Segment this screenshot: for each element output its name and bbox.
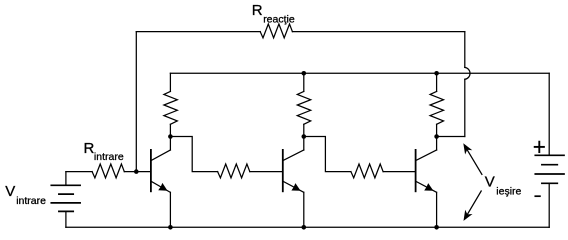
wire: coupling resistor to Q2 base xyxy=(250,171,283,173)
resistor R_intrare xyxy=(92,164,124,178)
wire: top feedback line (right segment) xyxy=(292,31,464,33)
collector resistor of Q1 xyxy=(164,73,177,150)
wire: positive supply rail xyxy=(170,72,549,74)
arrow: V_iesire to bottom rail xyxy=(464,191,482,221)
battery: supply (right) xyxy=(535,155,564,183)
junction dot: input node (Q1 base) xyxy=(134,169,139,174)
wire: battery top to R_intrare xyxy=(66,171,92,173)
svg-text:V: V xyxy=(5,183,15,200)
wire: Q1 collector node L to first coupling resistor xyxy=(170,137,217,172)
resistor: coupling stage2-stage3 xyxy=(351,164,383,178)
wire: feedback vertical below hop, down to output node xyxy=(464,79,466,136)
junction dot: rail node above Q3 xyxy=(434,71,439,76)
junction dot: Q1 emitter ground node xyxy=(168,225,173,230)
wire: output node to feedback corner xyxy=(437,136,465,138)
wire: R_intrare to input node xyxy=(124,171,151,173)
wire: coupling resistor to Q3 base xyxy=(383,171,416,173)
resistor R_reactie xyxy=(260,24,292,38)
svg-text:reacţie: reacţie xyxy=(263,13,295,25)
wire hop: feedback crosses supply rail xyxy=(465,67,470,79)
junction dot: rail node above Q2 xyxy=(302,71,307,76)
transistor Q1 xyxy=(151,150,171,227)
wire: top feedback line (left segment) xyxy=(136,31,260,33)
junction dot: Q2 collector node xyxy=(302,134,307,139)
svg-text:R: R xyxy=(252,2,263,19)
svg-text:intrare: intrare xyxy=(94,151,124,163)
battery V_intrare xyxy=(51,172,80,228)
junction dot: Q2 emitter ground node xyxy=(302,225,307,230)
junction dot: Q3 emitter ground node xyxy=(434,225,439,230)
wire: feedback vertical above hop xyxy=(464,32,466,68)
svg-text:R: R xyxy=(84,140,95,157)
svg-text:ieşire: ieşire xyxy=(496,186,521,198)
label: - terminal xyxy=(535,195,540,197)
transistor Q2 xyxy=(283,150,304,227)
label: + terminal xyxy=(535,142,544,152)
collector resistor of Q2 xyxy=(297,73,310,150)
wire: bottom ground-return rail xyxy=(66,226,549,228)
junction dot: Q1 collector node xyxy=(168,134,173,139)
transistor Q3 xyxy=(416,150,437,227)
junction dot: Q3 collector / output node xyxy=(434,134,439,139)
wire: battery - terminal down to bottom rail xyxy=(548,183,550,227)
collector resistor of Q3 xyxy=(430,73,443,150)
arrow: V_iesire to output node xyxy=(463,143,482,174)
resistor: coupling stage1-stage2 xyxy=(218,164,250,178)
wire: Q2 collector node L to second coupling resistor xyxy=(304,137,351,172)
svg-text:intrare: intrare xyxy=(16,195,46,207)
svg-text:V: V xyxy=(485,174,495,191)
wire: rail down to battery + terminal xyxy=(548,73,550,155)
wire: left feedback vertical, top node to Q1 base node xyxy=(135,32,137,172)
